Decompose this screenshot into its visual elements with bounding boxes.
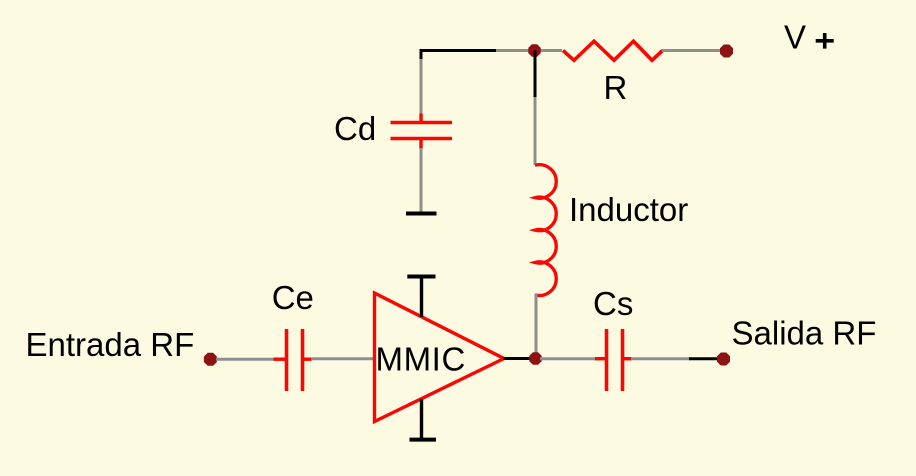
- svg-text:Entrada RF: Entrada RF: [26, 326, 195, 363]
- pin: MMIC bottom ground port: [410, 399, 437, 440]
- svg-text:Inductor: Inductor: [569, 191, 688, 228]
- wire: top-left corner black (node Vd to junction): [421, 51, 497, 61]
- svg-text:Cs: Cs: [593, 285, 633, 322]
- wire: resistor to V+ terminal gray: [662, 49, 722, 52]
- pin: MMIC top ground port: [407, 277, 435, 318]
- wire: Cs to output gray: [631, 357, 690, 360]
- ground (bar under Cd): [406, 212, 437, 216]
- wire: top horizontal gray to resistor: [496, 49, 562, 52]
- wire: left vertical gray down to Cd: [420, 59, 423, 115]
- wire: input terminal to Ce gray: [216, 358, 274, 361]
- wire: black segment to output terminal: [689, 357, 719, 360]
- wire: Cd to ground gray: [420, 148, 423, 212]
- svg-text:R: R: [604, 69, 628, 106]
- svg-text:Ce: Ce: [272, 279, 314, 316]
- wire: Ce to MMIC input gray: [311, 357, 374, 360]
- wire: MMIC output black to junction: [503, 357, 535, 360]
- terminal Salida RF: [717, 353, 730, 366]
- node: top junction dot: [528, 44, 540, 56]
- node: bottom junction dot: [529, 352, 541, 364]
- svg-text:Salida RF: Salida RF: [732, 315, 877, 352]
- inductor L: [535, 165, 556, 296]
- resistor R: [563, 41, 663, 60]
- wire: vertical gray to inductor: [534, 97, 537, 165]
- svg-text:V: V: [784, 19, 806, 56]
- op-amp U1 MMIC triangle: [375, 293, 505, 422]
- capacitor Cs: [595, 329, 632, 391]
- terminal V+: [720, 45, 733, 58]
- capacitor Ce: [274, 329, 312, 391]
- wire: vertical black below top junction: [534, 51, 537, 99]
- wire: junction to Cs gray: [540, 357, 596, 360]
- svg-text:Cd: Cd: [334, 110, 376, 147]
- terminal Entrada RF: [204, 353, 217, 366]
- capacitor Cd: [391, 114, 453, 150]
- wire: inductor to bottom junction gray: [535, 294, 538, 358]
- svg-text:MMIC: MMIC: [376, 341, 466, 378]
